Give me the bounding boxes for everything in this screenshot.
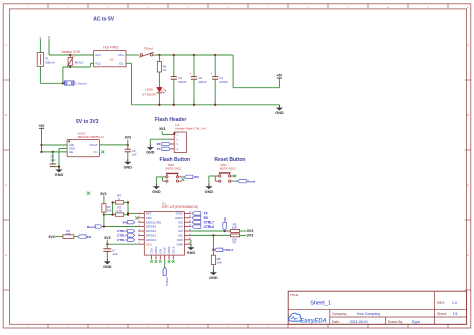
svg-text:GND: GND — [55, 173, 64, 177]
svg-text:100nF: 100nF — [178, 80, 187, 84]
svg-text:3V3: 3V3 — [125, 136, 131, 140]
svg-text:3V3: 3V3 — [247, 234, 253, 238]
svg-text:GND: GND — [124, 165, 133, 169]
svg-text:Eype: Eype — [412, 320, 420, 324]
svg-text:IO9: IO9 — [158, 249, 162, 254]
svg-text:1uF: 1uF — [50, 158, 55, 162]
svg-text:D: D — [5, 254, 7, 257]
svg-text:3V3: 3V3 — [247, 229, 253, 233]
svg-text:VCC: VCC — [146, 242, 152, 246]
svg-text:220uF: 220uF — [198, 80, 207, 84]
svg-text:AC2: AC2 — [95, 62, 101, 66]
svg-text:BSFS-1002: BSFS-1002 — [220, 166, 236, 170]
svg-text:D: D — [467, 254, 469, 257]
svg-text:IO5: IO5 — [178, 220, 183, 224]
svg-text:1uF: 1uF — [112, 252, 117, 256]
svg-text:GND: GND — [152, 190, 161, 194]
svg-text:750mA: 750mA — [144, 47, 154, 51]
svg-text:MISO: MISO — [154, 247, 158, 254]
svg-text:+5V: +5V — [276, 74, 283, 78]
svg-text:N: N — [48, 35, 50, 39]
svg-text:EN(CH_PD): EN(CH_PD) — [146, 220, 161, 224]
svg-text:500mA: 500mA — [45, 61, 55, 65]
svg-text:REV:: REV: — [437, 301, 445, 305]
svg-text:3V3: 3V3 — [159, 127, 165, 131]
svg-text:RST: RST — [146, 212, 152, 216]
svg-text:1uF: 1uF — [132, 152, 137, 156]
svg-text:CTRL6: CTRL6 — [204, 225, 214, 229]
svg-text:EasyEDA: EasyEDA — [300, 318, 327, 324]
svg-text:CTRL3: CTRL3 — [117, 229, 127, 233]
svg-text:R7: R7 — [233, 240, 237, 244]
svg-text:VOUT: VOUT — [89, 143, 98, 147]
svg-text:SCLK: SCLK — [171, 246, 175, 253]
svg-text:Drawn By:: Drawn By: — [388, 320, 403, 324]
svg-text:GPIO14: GPIO14 — [146, 229, 157, 233]
svg-text:CTRL2: CTRL2 — [223, 248, 233, 252]
svg-text:GND: GND — [177, 242, 183, 246]
svg-text:IO2: IO2 — [178, 234, 183, 238]
svg-text:10K: 10K — [107, 209, 112, 213]
svg-text:10K: 10K — [217, 261, 222, 265]
svg-text:+: + — [211, 72, 213, 76]
svg-text:1/1: 1/1 — [453, 312, 458, 316]
svg-text:CTRL5: CTRL5 — [165, 277, 169, 286]
svg-text:IO4: IO4 — [178, 225, 183, 229]
svg-text:DC+: DC+ — [119, 53, 125, 57]
svg-text:GPIO13: GPIO13 — [146, 238, 157, 242]
svg-text:KT-0603R: KT-0603R — [142, 92, 156, 96]
svg-text:C: C — [5, 184, 7, 187]
svg-text:CS0: CS0 — [150, 248, 154, 254]
svg-text:Date:: Date: — [332, 320, 340, 324]
svg-text:GPIO16: GPIO16 — [146, 225, 157, 229]
svg-text:EN: EN — [87, 235, 91, 239]
svg-text:ADC: ADC — [146, 216, 152, 220]
svg-text:Company:: Company: — [332, 312, 347, 316]
svg-text:3V3: 3V3 — [104, 236, 110, 240]
svg-text:IO0: IO0 — [223, 217, 227, 222]
svg-text:RXD0: RXD0 — [175, 216, 183, 220]
svg-text:2021-05-01: 2021-05-01 — [350, 320, 368, 324]
svg-text:GND: GND — [275, 111, 284, 115]
svg-text:HLK-PM01: HLK-PM01 — [103, 46, 119, 50]
svg-text:GND: GND — [103, 265, 112, 269]
svg-text:ME6211C33M5G-N: ME6211C33M5G-N — [78, 135, 104, 139]
svg-text:10K: 10K — [65, 232, 70, 236]
svg-text:TX: TX — [157, 147, 161, 151]
svg-text:U2: U2 — [110, 58, 114, 62]
svg-text:TITLE:: TITLE: — [290, 293, 299, 297]
svg-text:MOSI: MOSI — [167, 246, 171, 253]
svg-text:Sheet_1: Sheet_1 — [310, 300, 331, 306]
svg-text:Reset: Reset — [247, 179, 255, 183]
svg-text:CTRL1: CTRL1 — [117, 238, 127, 242]
svg-text:AC1: AC1 — [95, 53, 101, 57]
svg-text:EN: EN — [123, 220, 127, 224]
svg-text:IO15: IO15 — [177, 238, 184, 242]
svg-text:GND: GND — [146, 151, 155, 155]
svg-text:TXD0: TXD0 — [176, 212, 184, 216]
svg-text:DC-: DC- — [119, 62, 124, 66]
svg-text:GND: GND — [205, 190, 214, 194]
svg-text:Header Male-2.54_1x4: Header Male-2.54_1x4 — [175, 126, 206, 130]
svg-text:+: + — [190, 72, 192, 76]
svg-text:3V3: 3V3 — [48, 235, 54, 239]
svg-text:CE: CE — [69, 150, 73, 154]
svg-text:GND: GND — [187, 251, 196, 255]
svg-text:AC to 5V: AC to 5V — [93, 17, 115, 23]
svg-text:GND: GND — [209, 276, 218, 280]
svg-text:Reset: Reset — [87, 225, 95, 229]
svg-text:Your Company: Your Company — [357, 312, 381, 316]
svg-text:ESP-12F(ESP8266MOD): ESP-12F(ESP8266MOD) — [162, 205, 198, 209]
svg-text:BSFS-1002: BSFS-1002 — [165, 166, 181, 170]
svg-text:10K: 10K — [232, 225, 237, 229]
svg-text:Varistor 471K: Varistor 471K — [61, 50, 81, 54]
svg-text:IO0: IO0 — [178, 229, 183, 233]
svg-text:RX: RX — [157, 142, 161, 146]
svg-text:Sheet:: Sheet: — [437, 312, 447, 316]
svg-text:CTRL4: CTRL4 — [117, 234, 127, 238]
svg-text:1.15mod: 1.15mod — [75, 82, 87, 86]
svg-text:Reset Button: Reset Button — [214, 157, 245, 163]
svg-text:CTRL7: CTRL7 — [204, 220, 214, 224]
svg-text:1.0: 1.0 — [452, 301, 457, 305]
svg-text:5V to 3V3: 5V to 3V3 — [76, 119, 99, 125]
svg-text:MOV1: MOV1 — [75, 60, 84, 64]
svg-text:GPIO12: GPIO12 — [146, 234, 157, 238]
svg-text:4.7K: 4.7K — [116, 209, 122, 213]
svg-text:LED8: LED8 — [145, 87, 153, 91]
svg-text:+5V: +5V — [39, 124, 46, 128]
svg-text:Flash Button: Flash Button — [160, 157, 191, 163]
svg-text:Flash Header: Flash Header — [155, 117, 186, 123]
svg-text:IO10: IO10 — [163, 247, 167, 253]
svg-text:1K: 1K — [163, 68, 167, 72]
svg-text:3V3: 3V3 — [100, 192, 106, 196]
svg-text:220uF: 220uF — [219, 80, 228, 84]
svg-text:IO0: IO0 — [194, 175, 199, 179]
svg-text:C: C — [467, 184, 469, 187]
